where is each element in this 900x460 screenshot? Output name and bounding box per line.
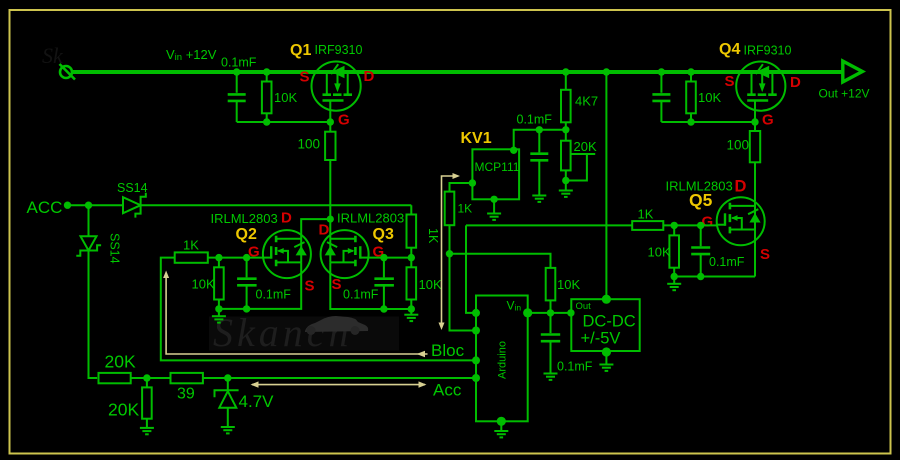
annotation arrow Bloc xyxy=(166,276,427,354)
diode SS14 (vertical) xyxy=(76,236,101,255)
transistor Q2 xyxy=(263,230,311,278)
wire jog to Q2 drain xyxy=(301,219,330,235)
svg-text:100: 100 xyxy=(727,138,750,153)
ground (KV1 divider) xyxy=(559,184,573,197)
svg-text:Out +12V: Out +12V xyxy=(819,87,870,101)
watermark Skanch xyxy=(42,43,368,355)
label IRF9310 (Q4) xyxy=(744,44,792,58)
ground (Q5) xyxy=(667,277,681,290)
svg-text:20K: 20K xyxy=(105,352,136,372)
ground (zener) xyxy=(221,421,235,434)
svg-text:Acc: Acc xyxy=(433,381,462,400)
label Out +12V xyxy=(819,87,870,101)
svg-text:SS14: SS14 xyxy=(117,181,148,195)
svg-text:D: D xyxy=(319,222,330,239)
label 0.1mF (Q5) xyxy=(709,255,745,269)
svg-text:IRF9310: IRF9310 xyxy=(315,43,363,57)
resistor 1k (Q3 gate, vertical) xyxy=(407,215,417,248)
capacitor 0.1mF (Q4) xyxy=(652,94,670,101)
label 1k (Q3, rotated) xyxy=(426,228,440,244)
svg-text:1K: 1K xyxy=(426,228,440,244)
svg-text:0.1mF: 0.1mF xyxy=(221,56,257,70)
label IRF9310 (Q1) xyxy=(315,43,363,57)
label 10K (Q2) xyxy=(192,277,215,292)
ground (Arduino) xyxy=(494,425,508,438)
wire ACC to lower net xyxy=(89,205,98,378)
capacitor 0.1mF (Q3) xyxy=(374,258,394,309)
label 4K7 xyxy=(575,94,598,109)
label 0.1mF (Q1) xyxy=(221,56,257,70)
ground (KV1) xyxy=(487,207,501,220)
pin label D (Q2) xyxy=(281,210,292,227)
label 1K (KV1) xyxy=(458,202,473,216)
diode SS14 (horizontal) xyxy=(123,193,146,218)
svg-text:D: D xyxy=(364,68,375,85)
svg-text:4K7: 4K7 xyxy=(575,94,598,109)
resistor 20K (vertical, ACC divider) xyxy=(142,378,152,422)
label SS14 (horizontal) xyxy=(117,181,148,195)
ground (DC-DC) xyxy=(599,358,613,371)
svg-text:S: S xyxy=(300,69,310,86)
ground (Vin cap) xyxy=(544,367,558,380)
svg-text:20K: 20K xyxy=(108,400,139,420)
label Acc xyxy=(433,381,462,400)
svg-text:DC-DC: DC-DC xyxy=(583,313,636,331)
resistor 1K (KV1 out) xyxy=(445,192,455,226)
wire Q2 source to ground rail xyxy=(219,274,301,309)
svg-text:S: S xyxy=(305,278,315,295)
capacitor 0.1mF (Q5) xyxy=(691,225,710,276)
resistor 100 (Q1 gate) xyxy=(325,132,335,160)
module Arduino box xyxy=(476,296,528,422)
svg-text:Bloc: Bloc xyxy=(431,341,465,360)
pin label D (Q5) xyxy=(735,178,747,196)
node dots divider xyxy=(143,374,231,381)
pin label S (Q4) xyxy=(725,73,735,90)
pin label D (Q4) xyxy=(790,74,801,91)
wire KV1 reset out to 1K xyxy=(450,183,477,331)
svg-text:S: S xyxy=(760,246,770,263)
watermark backdrop xyxy=(209,317,399,351)
transistor Q3 (mirrored) xyxy=(321,230,369,278)
pin label G (Q2) xyxy=(248,244,260,261)
label Q5 xyxy=(689,190,713,210)
label Q4 xyxy=(719,41,740,58)
resistor 10K (Q5 gate pulldown) xyxy=(669,225,679,276)
wire Arduino ground pin xyxy=(500,421,502,424)
resistor 100 (Q4 gate) xyxy=(750,131,760,162)
node dots Q4 bottom xyxy=(687,118,758,125)
label MCP111 xyxy=(475,160,520,174)
input terminal Vin xyxy=(60,64,76,80)
label 10K (Q4) xyxy=(698,90,721,105)
ground (Q3) xyxy=(404,308,418,321)
svg-text:MCP111: MCP111 xyxy=(475,160,520,174)
pin label S (Q5) xyxy=(760,246,770,263)
node dots Arduino and DC-DC xyxy=(472,295,611,426)
transistor Q4 xyxy=(736,62,785,111)
label 20K (KV1) xyxy=(574,139,597,154)
resistor 1K (Q2 gate) xyxy=(175,252,208,262)
svg-text:10K: 10K xyxy=(192,277,215,292)
wire +12V rail xyxy=(72,70,844,74)
label 0.1mF (Q2) xyxy=(256,288,292,302)
pin label D (Q3) xyxy=(319,222,330,239)
wire 1K left corner to Arduino xyxy=(466,225,476,313)
pin label G (Q5) xyxy=(702,214,714,231)
wire Q5 gate net xyxy=(466,224,717,226)
ground (20K) xyxy=(140,421,154,434)
resistor 10K (Q3 gate pulldown) xyxy=(407,258,417,309)
node dots KV1 xyxy=(446,126,570,257)
svg-text:IRLML2803: IRLML2803 xyxy=(211,211,278,226)
node dots Q5 xyxy=(671,222,705,280)
svg-text:S: S xyxy=(332,276,342,293)
svg-text:0.1mF: 0.1mF xyxy=(557,360,593,374)
resistor 10K (Q2 gate pulldown) xyxy=(214,258,224,309)
svg-text:10K: 10K xyxy=(274,90,297,105)
svg-text:SS14: SS14 xyxy=(108,233,122,264)
svg-text:1K: 1K xyxy=(458,202,473,216)
svg-text:S: S xyxy=(725,73,735,90)
pin label G (Q3) xyxy=(373,244,385,261)
label Bloc xyxy=(431,341,465,360)
resistor 10K (Q1 gate-source) xyxy=(262,72,272,122)
wire Q3 gate net xyxy=(369,257,412,259)
resistor 39 xyxy=(171,373,203,383)
wire KV1 Vdd net xyxy=(514,130,566,150)
svg-text:ACC: ACC xyxy=(27,198,63,217)
resistor 1K (Q5 gate) xyxy=(632,221,663,230)
capacitor 0.1mF (Q1) xyxy=(228,94,246,101)
svg-text:Out: Out xyxy=(576,301,592,312)
label Q2 xyxy=(236,226,257,243)
resistor 10K (Vin divider) xyxy=(546,268,556,301)
pin label D (Q1) xyxy=(364,68,375,85)
label 0.1mF (Arduino Vin) xyxy=(557,360,593,374)
label IRLML2803 (Q2) xyxy=(211,211,278,226)
resistor 20K (trimmer, KV1 divider) xyxy=(561,130,595,184)
svg-text:Arduino: Arduino xyxy=(497,341,509,379)
svg-text:D: D xyxy=(735,178,747,196)
capacitor 0.1mF (Q2) xyxy=(237,258,257,309)
label SS14 (vertical) xyxy=(108,233,122,264)
zener diode 4.7V xyxy=(215,378,239,421)
label +/-5V xyxy=(581,330,621,348)
svg-text:Q3: Q3 xyxy=(373,226,394,243)
wire Q3 source to ground rail xyxy=(330,274,411,310)
label Vin (Arduino) xyxy=(507,299,522,313)
svg-text:10K: 10K xyxy=(698,90,721,105)
wire Q4 gate down xyxy=(754,111,756,202)
label 10K (Q1) xyxy=(274,90,297,105)
supervisor U1 KV1 box xyxy=(472,149,519,199)
resistor 20K (horizontal, ACC divider) xyxy=(99,373,131,383)
svg-text:Vin +12V: Vin +12V xyxy=(166,47,217,63)
label Vin +12V xyxy=(166,47,217,63)
wire Q2 gate net xyxy=(208,257,263,259)
wire Q5 source xyxy=(674,241,755,277)
node dots rail left xyxy=(233,68,334,125)
wire Arduino Vin net xyxy=(528,312,572,314)
module DC-DC box xyxy=(571,299,639,351)
pin label S (Q1) xyxy=(300,69,310,86)
label 10K (Q5) xyxy=(648,245,671,260)
svg-text:100: 100 xyxy=(298,137,321,152)
label 100 (Q4) xyxy=(727,138,750,153)
wire node to Arduino Vin 10K xyxy=(450,254,551,313)
svg-text:Q5: Q5 xyxy=(689,190,713,210)
op-amp: none / transistor Q1 xyxy=(312,62,361,111)
svg-text:D: D xyxy=(281,210,292,227)
wire ACC input net xyxy=(68,205,412,257)
label ACC xyxy=(27,198,63,217)
wire Q1 gate down xyxy=(329,111,331,220)
svg-text:Q4: Q4 xyxy=(719,41,740,58)
svg-text:D: D xyxy=(790,74,801,91)
label DC-DC xyxy=(583,313,636,331)
svg-text:10K: 10K xyxy=(648,245,671,260)
label 1K (Q5) xyxy=(638,207,654,222)
svg-text:G: G xyxy=(338,112,350,129)
label 4.7V xyxy=(239,392,275,411)
wire ACC divider row xyxy=(131,377,477,379)
resistor 4K7 xyxy=(561,72,571,130)
label 20K (vertical) xyxy=(108,400,139,420)
label 20K (horizontal) xyxy=(105,352,136,372)
svg-text:IRLML2803: IRLML2803 xyxy=(337,211,404,226)
svg-text:1K: 1K xyxy=(638,207,654,222)
pin label G (Q1) xyxy=(338,112,350,129)
wire DC-DC ground pin xyxy=(605,351,607,358)
capacitor 0.1mF (Arduino Vin) xyxy=(541,313,560,367)
label KV1 xyxy=(461,130,492,147)
svg-text:10K: 10K xyxy=(419,277,442,292)
annotation arrow KV1 reset xyxy=(442,176,456,325)
node dots Q3 xyxy=(380,254,415,313)
svg-text:0.1mF: 0.1mF xyxy=(343,288,379,302)
svg-text:0.1mF: 0.1mF xyxy=(709,255,745,269)
label IRLML2803 (Q5) xyxy=(666,179,733,194)
pin label Out (DC-DC) xyxy=(576,301,592,312)
wire Bloc net from Arduino to 1K xyxy=(161,258,477,361)
annotation arrow Acc xyxy=(252,384,425,386)
wire cap C1 branch xyxy=(237,72,331,122)
label Q1 xyxy=(290,42,311,59)
node Q2/Q3 drain junction xyxy=(327,216,334,223)
label Q3 xyxy=(373,226,394,243)
label 10K (Q3) xyxy=(419,277,442,292)
wire KV1 ground pin xyxy=(493,199,495,207)
wire rail to DC-DC xyxy=(605,72,607,299)
label Arduino (rotated) xyxy=(497,341,509,379)
svg-text:+/-5V: +/-5V xyxy=(581,330,621,348)
svg-text:1K: 1K xyxy=(183,238,199,253)
svg-text:G: G xyxy=(762,112,774,129)
svg-text:0.1mF: 0.1mF xyxy=(517,113,553,127)
pin label S (Q2) xyxy=(305,278,315,295)
svg-text:4.7V: 4.7V xyxy=(239,392,275,411)
transistor Q5 xyxy=(717,197,765,245)
label 39 xyxy=(177,386,195,403)
svg-text:IRF9310: IRF9310 xyxy=(744,44,792,58)
capacitor 0.1mF (KV1) xyxy=(530,130,548,189)
node dots rail right xyxy=(562,68,695,75)
wire cap branch (Q4) xyxy=(661,72,755,122)
svg-text:0.1mF: 0.1mF xyxy=(256,288,292,302)
label 0.1mF (KV1) xyxy=(517,113,553,127)
output terminal arrow xyxy=(843,61,863,82)
label 1K (Q2) xyxy=(183,238,199,253)
node dots ACC xyxy=(64,202,92,209)
ground (Q2) xyxy=(212,310,226,323)
svg-text:20K: 20K xyxy=(574,139,597,154)
svg-text:Q2: Q2 xyxy=(236,226,257,243)
node dots Q2 xyxy=(215,254,250,313)
svg-text:Q1: Q1 xyxy=(290,42,311,59)
label 0.1mF (Q3) xyxy=(343,288,379,302)
label 10K (Vin) xyxy=(557,277,580,292)
label 100 (Q1) xyxy=(298,137,321,152)
pin label S (Q3) xyxy=(332,276,342,293)
svg-text:10K: 10K xyxy=(557,277,580,292)
resistor 10K (Q4 gate-source) xyxy=(686,72,696,122)
svg-text:KV1: KV1 xyxy=(461,130,492,147)
svg-text:39: 39 xyxy=(177,386,195,403)
pin label G (Q4) xyxy=(762,112,774,129)
label IRLML2803 (Q3) xyxy=(337,211,404,226)
ground (KV1 cap) xyxy=(532,189,546,202)
